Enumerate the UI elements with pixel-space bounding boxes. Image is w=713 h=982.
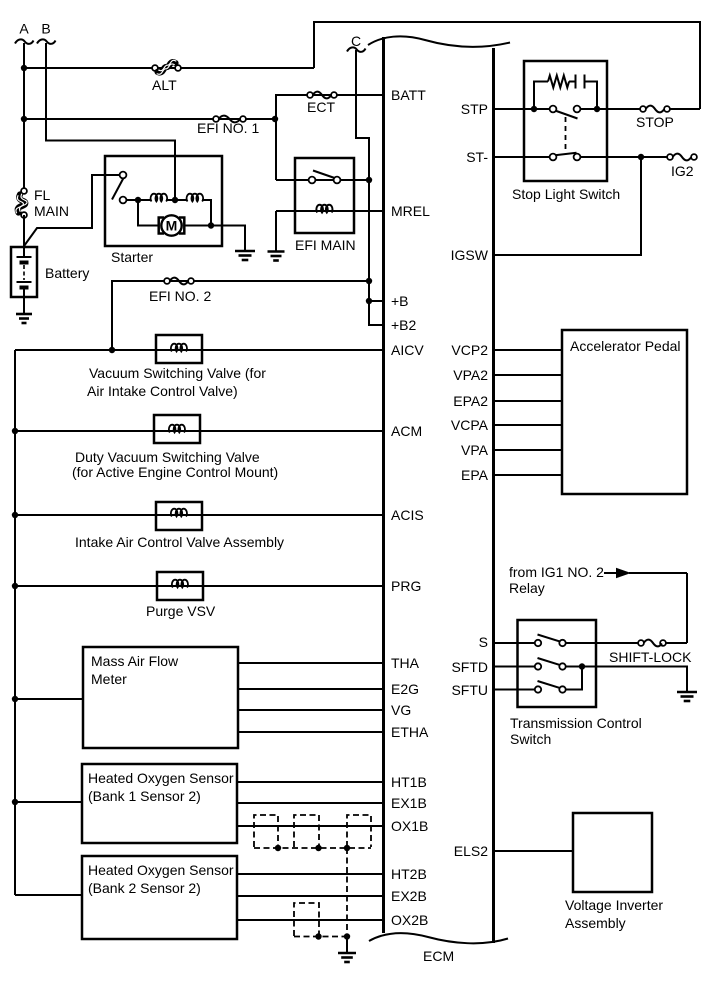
VSV ACIS box xyxy=(156,502,202,530)
junction bus-MAF xyxy=(12,696,18,702)
svg-text:ELS2: ELS2 xyxy=(454,843,488,859)
wire STOP to top bus xyxy=(670,108,700,110)
wire ACIS row xyxy=(15,514,384,516)
svg-text:EX2B: EX2B xyxy=(391,888,427,904)
junction starter S2 xyxy=(172,197,178,203)
ground EFI MAIN xyxy=(268,252,285,261)
starter switch xyxy=(112,172,126,204)
motor M xyxy=(159,215,211,235)
junction SFTD-SFTU xyxy=(579,663,585,669)
svg-text:OX2B: OX2B xyxy=(391,912,428,928)
fusible link FL MAIN xyxy=(16,187,69,219)
junction ST-IGSW xyxy=(638,154,644,160)
svg-text:ALT: ALT xyxy=(152,77,177,93)
shield OX2B staple xyxy=(294,903,319,936)
junction bus-HO2S1 xyxy=(12,799,18,805)
wire EFI1 to ECT and EFI MAIN xyxy=(276,95,384,180)
svg-text:AICV: AICV xyxy=(391,342,424,358)
wire EPA xyxy=(494,474,563,476)
wire OX2B xyxy=(237,919,384,921)
svg-text:VPA2: VPA2 xyxy=(453,367,488,383)
heated oxygen sensor bank1 box xyxy=(82,764,237,843)
transmission control switch box xyxy=(510,620,642,747)
junction shield2 a xyxy=(315,933,321,939)
wire EPA2 xyxy=(494,400,563,402)
wire ETHA xyxy=(238,731,384,733)
svg-text:EPA: EPA xyxy=(461,467,489,483)
svg-text:EPA2: EPA2 xyxy=(453,393,488,409)
wire STP switch to STOP fuse xyxy=(577,108,643,110)
wire ELS2 xyxy=(494,850,574,852)
switch SFTD xyxy=(535,658,566,670)
wire THA xyxy=(238,662,384,664)
wire starter switch to coils xyxy=(127,199,152,201)
coil AICV xyxy=(171,344,187,352)
wire A vertical xyxy=(23,43,25,191)
svg-text:HT2B: HT2B xyxy=(391,866,427,882)
wire C drop xyxy=(356,50,384,325)
starter box xyxy=(105,156,222,246)
junction shield1 c xyxy=(344,845,350,851)
svg-text:Vacuum Switching Valve (for: Vacuum Switching Valve (for xyxy=(89,365,266,381)
svg-text:VPA: VPA xyxy=(461,442,489,458)
svg-text:EFI NO. 1: EFI NO. 1 xyxy=(197,120,259,136)
junction A-EFI1 xyxy=(21,116,27,122)
junction C-relay xyxy=(366,177,372,183)
wire starter to ground xyxy=(211,226,245,252)
svg-text:+B2: +B2 xyxy=(391,317,417,333)
wire VG xyxy=(238,709,384,711)
coil ACM xyxy=(169,425,185,433)
ECM top wave xyxy=(368,36,510,46)
wire SFTD to ground xyxy=(563,667,688,693)
wire shift-lock to arrow xyxy=(686,573,688,643)
wire shield drop dashed xyxy=(346,848,348,937)
junction bus-ACM xyxy=(12,428,18,434)
svg-text:VCP2: VCP2 xyxy=(451,342,488,358)
node B xyxy=(37,21,56,44)
wire HT2B xyxy=(237,873,384,875)
heated oxygen sensor bank2 box xyxy=(82,856,237,939)
stop light switch box xyxy=(524,61,607,181)
switch stop upper xyxy=(550,106,581,119)
fuse ECT xyxy=(307,92,337,115)
svg-text:Assembly: Assembly xyxy=(565,915,626,931)
wire coil2 to motor right xyxy=(202,200,211,226)
svg-text:Starter: Starter xyxy=(111,249,153,265)
wire bus to HO2S bank2 xyxy=(15,894,82,896)
wire bus to HO2S bank1 xyxy=(15,801,82,803)
wire battery to starter switch xyxy=(24,175,120,246)
svg-text:MREL: MREL xyxy=(391,203,430,219)
wire SFTU link xyxy=(563,667,583,690)
fuse STOP xyxy=(636,106,674,130)
wire ST- line xyxy=(494,156,551,158)
shield OX1B staple 1 xyxy=(254,815,278,847)
wire EFI1 to relay switch xyxy=(276,179,369,181)
shield OX2B bottom link xyxy=(294,936,347,938)
wire IGSW xyxy=(494,157,642,255)
svg-text:ECT: ECT xyxy=(307,99,335,115)
svg-text:(Bank 2 Sensor 2): (Bank 2 Sensor 2) xyxy=(88,880,201,896)
svg-text:Intake Air Control Valve Assem: Intake Air Control Valve Assembly xyxy=(75,534,284,550)
wire SFTD line xyxy=(494,666,539,668)
wire S line xyxy=(494,642,539,644)
svg-text:ST-: ST- xyxy=(466,149,488,165)
svg-text:Relay: Relay xyxy=(509,580,545,596)
svg-text:EFI MAIN: EFI MAIN xyxy=(295,237,356,253)
wire left bus xyxy=(14,350,16,895)
junction stp right xyxy=(594,106,600,112)
ground shield xyxy=(338,953,356,962)
wire VCP2 xyxy=(494,349,563,351)
svg-text:EX1B: EX1B xyxy=(391,795,427,811)
wire shield to ground xyxy=(346,937,348,954)
shield OX1B bottom link xyxy=(254,847,371,849)
shield OX1B staple 3 xyxy=(347,815,371,847)
junction C-+B xyxy=(366,298,372,304)
svg-text:PRG: PRG xyxy=(391,578,421,594)
arrow from IG1 xyxy=(604,568,687,578)
svg-text:ACIS: ACIS xyxy=(391,507,424,523)
wire +B stub xyxy=(369,300,384,302)
wire HT1B xyxy=(237,781,384,783)
wire EFI NO.1 feed xyxy=(24,118,275,120)
svg-text:B: B xyxy=(41,21,50,37)
svg-text:Accelerator Pedal: Accelerator Pedal xyxy=(570,338,681,354)
ground SFTD xyxy=(677,692,697,701)
svg-text:Heated Oxygen Sensor: Heated Oxygen Sensor xyxy=(88,862,234,878)
junction starter S1 xyxy=(135,197,141,203)
capacitor stop light xyxy=(569,75,597,110)
wire relay coil to ground xyxy=(275,211,277,252)
wire SHIFT-LOCK to corner xyxy=(666,642,687,644)
junction bus-PRG xyxy=(12,583,18,589)
wire ALT feed xyxy=(24,67,314,69)
wire VPA xyxy=(494,449,563,451)
resistor stop light xyxy=(534,76,569,110)
svg-text:ECM: ECM xyxy=(423,948,454,964)
svg-text:Voltage Inverter: Voltage Inverter xyxy=(565,897,663,913)
junction shield2 b xyxy=(344,933,350,939)
node A xyxy=(15,21,34,44)
svg-text:OX1B: OX1B xyxy=(391,818,428,834)
svg-text:Mass Air Flow: Mass Air Flow xyxy=(91,653,179,669)
svg-text:A: A xyxy=(19,21,29,37)
svg-text:MAIN: MAIN xyxy=(34,203,69,219)
ECM bottom wave xyxy=(369,933,508,943)
svg-text:IG2: IG2 xyxy=(671,163,694,179)
wire EX2B xyxy=(237,895,384,897)
junction A-ALT xyxy=(21,65,27,71)
relay switch contacts xyxy=(309,171,341,184)
svg-text:E2G: E2G xyxy=(391,681,419,697)
junction stp left xyxy=(531,106,537,112)
svg-text:EFI NO. 2: EFI NO. 2 xyxy=(149,288,211,304)
wire battery to ground xyxy=(23,288,25,315)
fuse SHIFT-LOCK xyxy=(609,640,692,665)
wire FL MAIN to battery xyxy=(23,215,25,257)
wire MREL coil line xyxy=(276,210,384,212)
svg-text:Air Intake Control Valve): Air Intake Control Valve) xyxy=(87,383,238,399)
wire ST- to IG2 xyxy=(580,156,670,158)
svg-text:SFTU: SFTU xyxy=(451,682,488,698)
junction shield1 b xyxy=(315,845,321,851)
dashed switch link xyxy=(565,117,567,151)
svg-text:STOP: STOP xyxy=(636,114,674,130)
wire top bus xyxy=(314,22,700,109)
junction shield1 a xyxy=(275,845,281,851)
svg-text:M: M xyxy=(166,218,178,234)
ground battery xyxy=(16,314,32,323)
svg-text:(Bank 1 Sensor 2): (Bank 1 Sensor 2) xyxy=(88,788,201,804)
svg-text:SHIFT-LOCK: SHIFT-LOCK xyxy=(609,649,692,665)
wire motor left leg xyxy=(138,200,159,226)
relay EFI MAIN box xyxy=(295,158,354,233)
coil starter 2 xyxy=(187,194,204,202)
svg-text:(for Active Engine Control Mou: (for Active Engine Control Mount) xyxy=(72,464,278,480)
fuse IG2 xyxy=(667,154,697,179)
svg-text:Meter: Meter xyxy=(91,671,127,687)
wire AICV row xyxy=(15,349,384,351)
svg-text:S: S xyxy=(479,634,488,650)
svg-text:VG: VG xyxy=(391,702,411,718)
wire OX1B xyxy=(237,825,384,827)
voltage inverter assembly box xyxy=(565,813,663,931)
wire B drop to starter xyxy=(46,43,175,200)
junction C-EFI2 xyxy=(366,278,372,284)
ECM right edge xyxy=(492,48,495,943)
svg-text:SFTD: SFTD xyxy=(451,659,488,675)
coil ACIS xyxy=(171,509,187,517)
switch SFTU xyxy=(535,681,566,693)
coil MREL xyxy=(316,205,332,213)
wire bus to MAF xyxy=(15,698,83,700)
fuse EFI NO. 1 xyxy=(197,116,259,136)
wire VCPA xyxy=(494,424,563,426)
junction starter motor-out xyxy=(208,222,214,228)
wire SFTU line xyxy=(494,689,539,691)
wire S to SHIFT-LOCK xyxy=(563,642,645,644)
svg-text:HT1B: HT1B xyxy=(391,774,427,790)
svg-text:Stop Light Switch: Stop Light Switch xyxy=(512,186,620,202)
svg-text:+B: +B xyxy=(391,293,409,309)
junction EFI1 branch xyxy=(272,116,278,122)
wire between coils xyxy=(166,199,187,201)
wire ACM row xyxy=(15,430,384,432)
wire PRG row xyxy=(15,585,384,587)
svg-text:Purge VSV: Purge VSV xyxy=(146,603,216,619)
label from IG1 NO.2 relay xyxy=(509,564,604,596)
junction bus-ACIS xyxy=(12,512,18,518)
wire EFI NO.2 feed xyxy=(112,281,369,350)
switch S xyxy=(535,635,566,647)
VSV AICV box xyxy=(156,335,202,363)
svg-text:Duty Vacuum Switching Valve: Duty Vacuum Switching Valve xyxy=(75,449,260,465)
junction EFI2-AICV xyxy=(109,347,115,353)
svg-text:Battery: Battery xyxy=(45,265,89,281)
svg-text:FL: FL xyxy=(34,187,51,203)
svg-text:VCPA: VCPA xyxy=(451,417,489,433)
node C xyxy=(347,33,366,52)
svg-text:Switch: Switch xyxy=(510,731,551,747)
svg-text:from IG1 NO. 2: from IG1 NO. 2 xyxy=(509,564,604,580)
switch stop lower xyxy=(550,153,581,161)
svg-text:ETHA: ETHA xyxy=(391,724,429,740)
VSV purge box xyxy=(157,572,203,600)
VSV ACM box xyxy=(154,415,200,443)
mass air flow meter box xyxy=(83,647,238,748)
fusible link ALT xyxy=(152,60,181,93)
svg-text:Transmission Control: Transmission Control xyxy=(510,715,642,731)
coil starter 1 xyxy=(151,194,168,202)
svg-text:THA: THA xyxy=(391,655,420,671)
wire E2G xyxy=(238,688,384,690)
coil purge xyxy=(172,580,188,588)
battery xyxy=(11,247,89,297)
svg-text:Heated Oxygen Sensor: Heated Oxygen Sensor xyxy=(88,770,234,786)
ECM left edge xyxy=(382,37,385,933)
svg-text:BATT: BATT xyxy=(391,87,426,103)
fuse EFI NO. 2 xyxy=(149,278,211,304)
wire VPA2 xyxy=(494,374,563,376)
accelerator pedal box xyxy=(562,330,687,494)
svg-text:IGSW: IGSW xyxy=(451,247,489,263)
wire EX1B xyxy=(237,802,384,804)
shield OX1B staple 2 xyxy=(294,815,319,847)
ground starter xyxy=(235,251,255,260)
wire STP line xyxy=(494,108,554,110)
svg-text:ACM: ACM xyxy=(391,423,422,439)
svg-text:STP: STP xyxy=(461,101,488,117)
